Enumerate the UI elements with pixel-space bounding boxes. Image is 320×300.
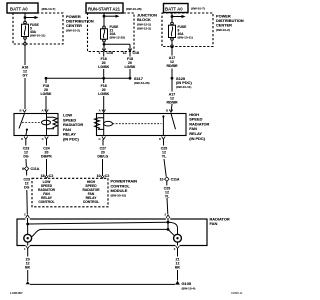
svg-text:BATT A0: BATT A0 xyxy=(10,7,28,12)
svg-text:LG/BK: LG/BK xyxy=(98,65,109,69)
svg-text:(8W-10-7): (8W-10-7) xyxy=(191,7,205,11)
svg-text:RUN-START A21: RUN-START A21 xyxy=(88,6,121,11)
svg-text:12: 12 xyxy=(123,51,127,55)
svg-text:C: C xyxy=(98,137,100,141)
svg-text:10: 10 xyxy=(97,174,101,178)
svg-text:MODULE: MODULE xyxy=(111,188,128,193)
svg-text:BATT A0: BATT A0 xyxy=(165,6,183,11)
svg-text:CONTROL: CONTROL xyxy=(38,200,54,204)
svg-text:10: 10 xyxy=(160,177,164,181)
svg-text:LG/BK: LG/BK xyxy=(41,92,52,96)
svg-text:BLOCK: BLOCK xyxy=(137,17,151,22)
svg-text:(8W-10-2): (8W-10-2) xyxy=(66,28,80,32)
svg-text:C: C xyxy=(42,137,44,141)
svg-text:(IN PDC): (IN PDC) xyxy=(189,136,205,141)
svg-text:A: A xyxy=(99,109,101,113)
svg-text:D: D xyxy=(159,137,161,141)
svg-text:(8W-10-11): (8W-10-11) xyxy=(178,36,193,40)
svg-text:18: 18 xyxy=(41,174,45,178)
svg-text:DB/PK: DB/PK xyxy=(41,154,52,158)
svg-text:C18: C18 xyxy=(133,51,139,55)
svg-text:(8W-10-7): (8W-10-7) xyxy=(42,7,56,11)
svg-text:C11A: C11A xyxy=(31,167,40,171)
svg-text:C11A: C11A xyxy=(171,177,180,181)
svg-text:(8W-10-25): (8W-10-25) xyxy=(126,7,142,11)
svg-text:(8W-12-25): (8W-12-25) xyxy=(134,81,150,85)
svg-text:D: D xyxy=(21,137,23,141)
svg-text:C18: C18 xyxy=(107,51,113,55)
svg-text:BK: BK xyxy=(175,266,181,270)
svg-text:(8W-12-25): (8W-12-25) xyxy=(110,35,126,39)
svg-text:GY: GY xyxy=(22,74,28,78)
svg-text:9: 9 xyxy=(22,167,24,171)
svg-text:(8W-10-11): (8W-10-11) xyxy=(30,34,45,38)
svg-text:RD/BR: RD/BR xyxy=(166,101,178,105)
svg-text:C2: C2 xyxy=(49,174,54,178)
svg-text:(8W-10-2): (8W-10-2) xyxy=(216,28,230,32)
svg-text:B: B xyxy=(166,109,168,113)
svg-text:DG: DG xyxy=(24,186,30,190)
svg-text:CENTER: CENTER xyxy=(216,23,232,28)
svg-text:FAN: FAN xyxy=(210,221,218,226)
svg-text:(8W-15-4): (8W-15-4) xyxy=(182,286,196,290)
svg-text:1: 1 xyxy=(99,51,101,55)
svg-text:CENTER: CENTER xyxy=(66,23,82,28)
svg-text:(8W-30-15): (8W-30-15) xyxy=(111,194,127,198)
svg-text:G105: G105 xyxy=(182,281,192,286)
svg-text:01898-11: 01898-11 xyxy=(231,291,243,295)
svg-text:(8W-12-3): (8W-12-3) xyxy=(137,27,151,31)
svg-text:(8W-10-11): (8W-10-11) xyxy=(176,85,191,89)
svg-text:LG/BK: LG/BK xyxy=(125,65,136,69)
svg-text:CONTROL: CONTROL xyxy=(83,200,99,204)
svg-text:LX004D7: LX004D7 xyxy=(10,291,23,295)
svg-text:DB/LG: DB/LG xyxy=(97,154,108,158)
svg-text:RD/BR: RD/BR xyxy=(166,64,178,68)
svg-text:(IN PDC): (IN PDC) xyxy=(63,137,79,142)
svg-text:C2: C2 xyxy=(105,174,110,178)
svg-text:BK: BK xyxy=(25,266,31,270)
svg-text:A: A xyxy=(41,109,43,113)
svg-text:LG/BK: LG/BK xyxy=(98,92,109,96)
svg-text:DG: DG xyxy=(23,154,29,158)
svg-text:B: B xyxy=(19,109,21,113)
